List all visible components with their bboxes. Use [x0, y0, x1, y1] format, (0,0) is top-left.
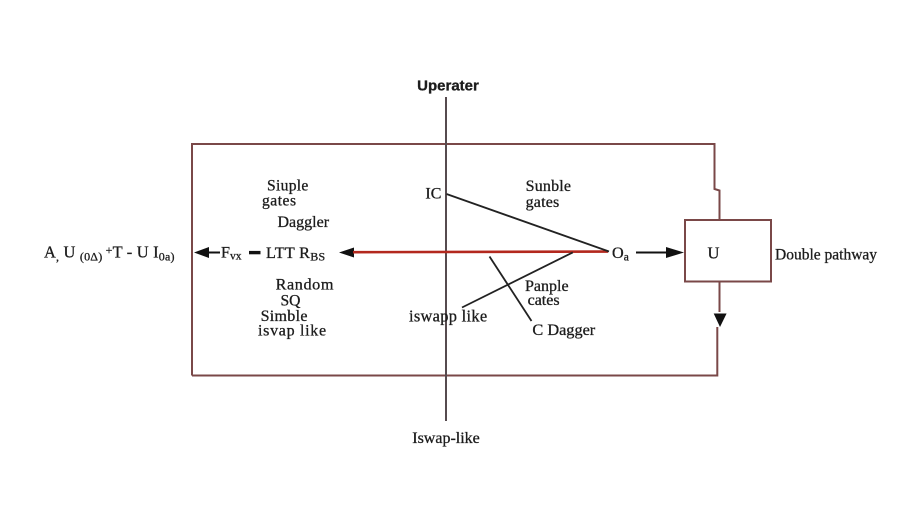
- diagonal line to C Dagger: [490, 257, 532, 322]
- svg-text:LTT RBS: LTT RBS: [266, 244, 326, 264]
- arrow Oa to U box: [636, 252, 668, 254]
- svg-text:IC: IC: [425, 186, 441, 203]
- left output arrow on rectangle edge: [194, 247, 209, 258]
- svg-text:Random: Random: [276, 275, 334, 293]
- svg-text:C Dagger: C Dagger: [532, 320, 595, 339]
- outer boundary bottom and right-lower segment: [192, 282, 720, 376]
- svg-text:A, U (0Δ) +T - U I0a): A, U (0Δ) +T - U I0a): [44, 243, 175, 264]
- svg-text:Iswap-like: Iswap-like: [412, 430, 480, 447]
- svg-text:U: U: [708, 244, 720, 263]
- svg-text:Daggler: Daggler: [278, 214, 330, 231]
- outer boundary rectangle: [192, 144, 720, 376]
- svg-text:Fvx: Fvx: [221, 244, 242, 263]
- svg-text:Double pathway: Double pathway: [775, 247, 877, 264]
- svg-text:Oa: Oa: [612, 244, 629, 264]
- svg-text:gates: gates: [526, 194, 560, 211]
- equals dash: [249, 251, 261, 254]
- red pathway line: [353, 250, 608, 253]
- vertical operator axis line: [445, 97, 447, 421]
- svg-text:Sunble: Sunble: [526, 178, 572, 195]
- svg-text:Uperater: Uperater: [417, 78, 479, 95]
- diagonal line to iswapp like: [462, 252, 573, 307]
- diagonal line IC to Oa: [447, 194, 610, 252]
- svg-text:gates: gates: [262, 193, 297, 210]
- svg-text:cates: cates: [528, 292, 560, 309]
- svg-text:isvap like: isvap like: [258, 323, 327, 340]
- box U: [685, 220, 771, 282]
- down arrowhead below U box: [714, 314, 727, 328]
- red line left arrowhead: [339, 248, 354, 258]
- svg-text:iswapp like: iswapp like: [409, 306, 487, 325]
